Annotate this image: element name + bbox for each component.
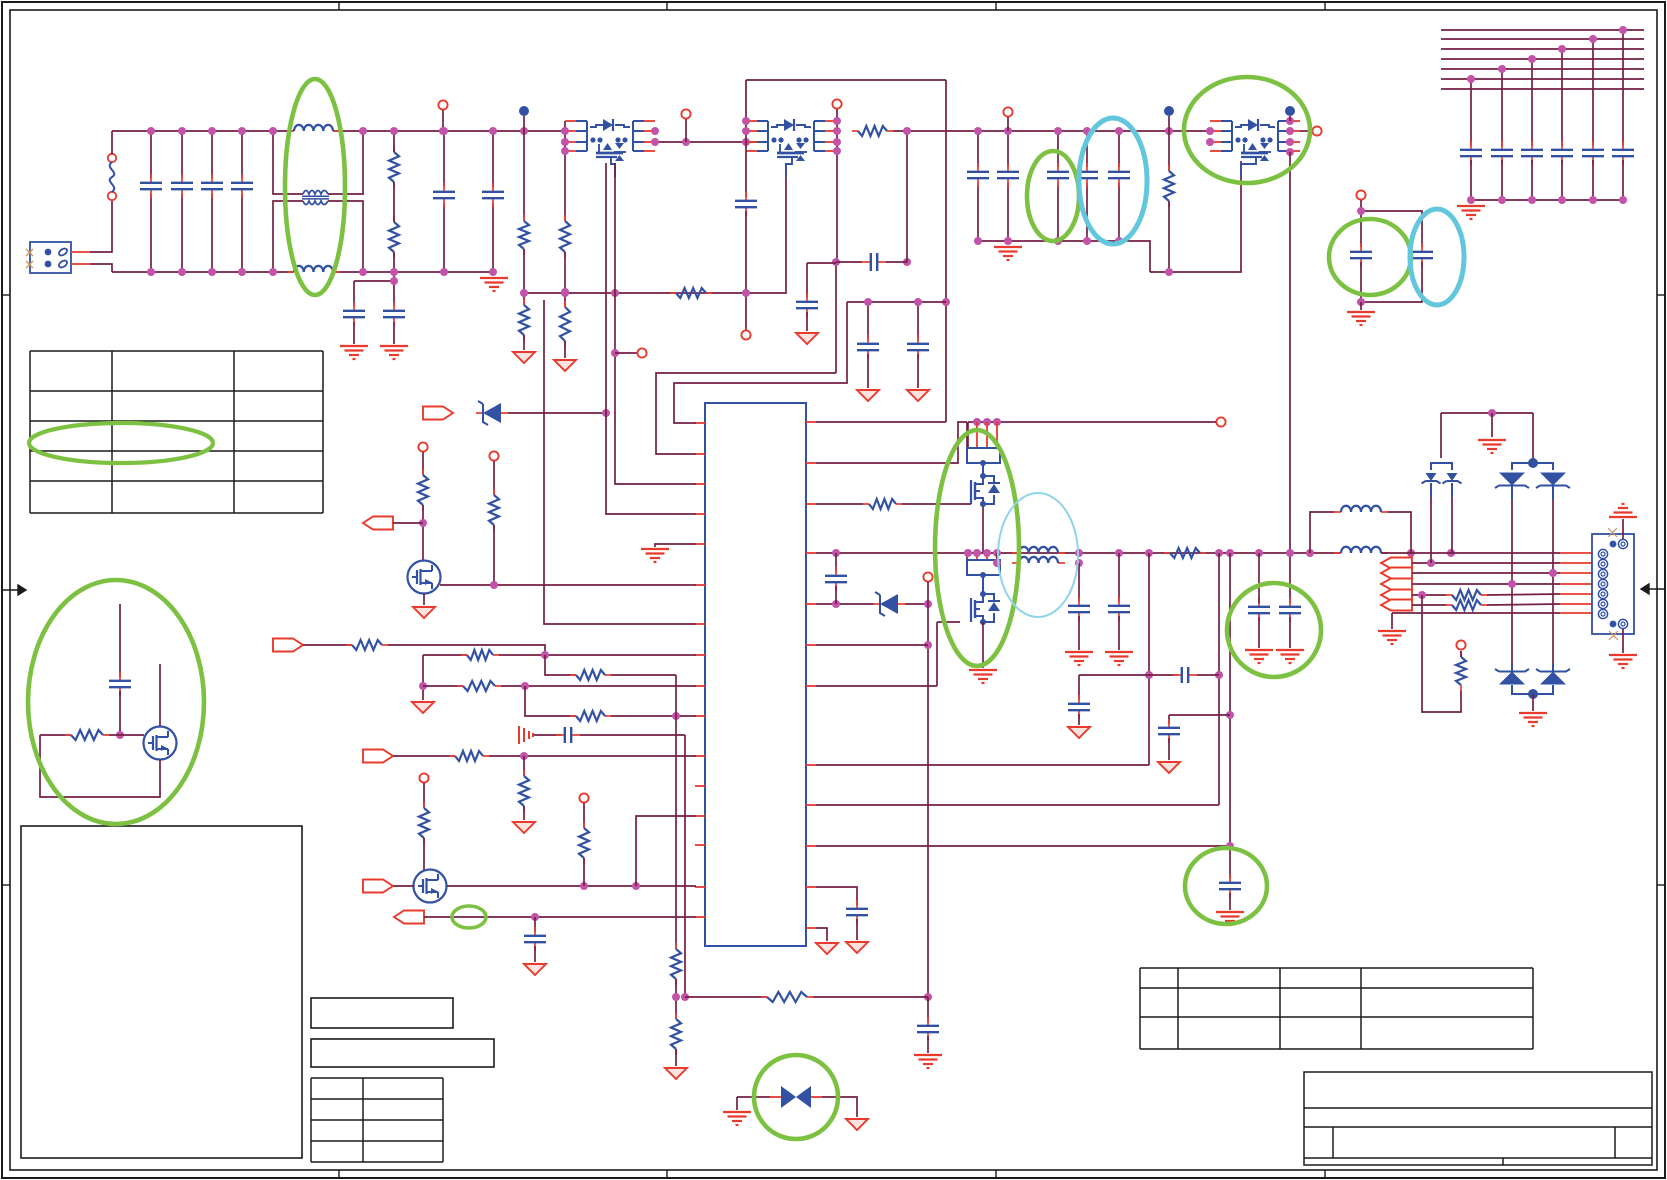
wire col494 stub: [493, 461, 495, 495]
wire cap807 h: [807, 262, 836, 264]
wire col524b dn: [523, 806, 525, 820]
capacitor C5 col444: [443, 131, 445, 272]
wire col423 low2: [422, 655, 424, 700]
capacitor C snub h: [862, 253, 886, 271]
wire pin row686r: [816, 685, 937, 687]
ground earth out rail: [1457, 206, 1485, 219]
wire loop 1361-1422: [1361, 211, 1422, 247]
resistor R col676 lower: [671, 1013, 681, 1055]
junction dot row917: [531, 913, 539, 921]
wire pinB row463: [816, 422, 967, 463]
resistor R col565 upper: [560, 215, 570, 258]
wire col928 cap: [927, 997, 929, 1022]
ground tri col807: [796, 333, 818, 344]
resistor R row655: [461, 650, 499, 660]
resistor R col524 lower: [519, 299, 529, 341]
net label arrow out1: [1381, 558, 1412, 569]
wire small diode legs: [1431, 483, 1452, 563]
wire cluster3 out: [1300, 130, 1312, 132]
wire row523: [393, 522, 423, 524]
transistor Q1 Q2 pair primary: [565, 119, 655, 177]
wire col615 tp stub: [615, 352, 637, 354]
wire row816: [636, 816, 696, 886]
wire CY1 down: [353, 322, 355, 344]
resistor R bleed lower: [389, 216, 399, 258]
junction dots cluster3: [1206, 117, 1294, 156]
title block: [1304, 1072, 1652, 1165]
capacitor C out col1623: [1612, 141, 1634, 165]
junction dots out gnd rail: [1467, 196, 1627, 204]
ground tri col1169: [1158, 762, 1180, 773]
wire col1230 gnd: [1229, 893, 1231, 910]
highlight ellipse sync fets: [935, 430, 1019, 666]
capacitor CX2: [181, 131, 183, 272]
capacitor C col1087 plates: [1076, 163, 1098, 187]
capacitor C col857: [846, 900, 868, 924]
resistor R col423: [418, 469, 428, 511]
highlight ellipse cyan caps: [1079, 118, 1147, 244]
wire out row573: [1412, 572, 1560, 574]
wire col746 low: [745, 211, 747, 293]
wire cap918 up: [917, 302, 919, 340]
wire row686: [423, 685, 463, 687]
wire out row613: [1392, 612, 1560, 614]
terminal dot tvs bottom: [1528, 689, 1538, 699]
wire pin row805: [816, 804, 1219, 806]
wire ycap branch v: [393, 272, 395, 306]
junction dot col423: [419, 519, 427, 527]
capacitor C col1087: [1086, 131, 1088, 241]
wire C out col1502 dn: [1501, 160, 1503, 200]
net label arrow out4: [1381, 590, 1412, 601]
ground earth tvs bottom: [1519, 713, 1547, 726]
wire col676 gnd: [675, 1049, 677, 1066]
wire col946: [945, 80, 947, 422]
box label 2: [311, 1039, 494, 1067]
terminal blue col1290: [1285, 106, 1295, 116]
wire tvs legs: [1512, 486, 1553, 664]
net label arrow out2: [1381, 568, 1412, 579]
pin stub connector row6: [1560, 603, 1592, 605]
capacitor C5 plates: [433, 183, 455, 207]
wire col584 stub: [583, 803, 585, 828]
transistor Q10 package upper: [967, 422, 1000, 507]
highlight ellipse cap 1058: [1027, 151, 1079, 241]
wire row686 b: [501, 685, 696, 687]
wire TP1008 stub: [1007, 117, 1009, 131]
terminal TP col1008: [1003, 107, 1012, 116]
wire TP686 stub: [685, 119, 687, 142]
junction dots rail553: [832, 549, 1455, 557]
resistor R col1169: [1164, 165, 1174, 207]
resistor R sense: [1456, 651, 1466, 691]
resistor R row686: [457, 681, 501, 691]
resistor R row756: [449, 751, 489, 761]
terminal TP cluster3 out: [1312, 126, 1321, 135]
wire ycap branch h: [354, 280, 394, 282]
box label 1: [311, 998, 453, 1028]
fuse F1: [108, 154, 116, 200]
junction dots out rows: [1418, 559, 1435, 599]
junction dots rail422: [973, 418, 1001, 426]
connector J1 AC inlet: [26, 242, 71, 273]
wire col928 gnd: [927, 1036, 929, 1053]
ground earth col1361: [1347, 312, 1375, 325]
junction dots col746: [520, 117, 750, 297]
wire A pin454: [656, 373, 836, 454]
capacitor CX4 plates: [231, 174, 253, 198]
net label arrow row756: [363, 750, 393, 763]
ground antenna row735: [519, 726, 533, 744]
junction dot 1169-272: [1165, 268, 1173, 276]
wire col676 low: [675, 979, 677, 1019]
junction dots loop: [1357, 207, 1365, 306]
junction dots col928: [924, 641, 932, 1001]
wire J2 bottom gnd: [1622, 629, 1624, 653]
wire col606: [606, 163, 696, 514]
wire col1361 dn: [1360, 262, 1362, 302]
wire cap807 dn: [806, 312, 808, 331]
resistor R out605: [1446, 600, 1487, 610]
transistor Q5 Q6 pair clamp: [1210, 119, 1300, 177]
ground tri col1079b: [1068, 727, 1090, 738]
wire col544: [544, 300, 696, 624]
terminal TP col423: [418, 442, 427, 451]
diode DZ row413: [476, 401, 508, 425]
ground tri col565: [554, 360, 576, 371]
wire col1169 low: [1168, 201, 1170, 272]
wire col565 mid: [564, 252, 566, 307]
ground earth col1230: [1216, 912, 1244, 925]
wire Q11 src row622: [937, 621, 960, 623]
terminal blue col1169: [1164, 106, 1174, 116]
wire row504 a: [816, 503, 863, 505]
wire E3 loop: [40, 735, 160, 797]
junction dots row886: [580, 882, 640, 890]
resistor R col524 upper: [519, 215, 529, 255]
wire col1079: [1078, 563, 1080, 602]
wire top bus segment B: [333, 130, 565, 132]
capacitor C col1290 circled: [1279, 598, 1301, 622]
wire row293: [524, 163, 786, 293]
resistor R col424b: [419, 802, 429, 844]
wire col423 stub: [422, 452, 424, 475]
junction dots y302: [864, 298, 922, 306]
junction dot row716: [672, 712, 680, 720]
wire pin row846: [816, 845, 1230, 847]
capacitor CY2: [383, 302, 405, 326]
capacitor C col836: [825, 567, 847, 591]
transistor Q11 package lower: [967, 553, 1000, 625]
wire row604 b: [905, 603, 928, 605]
wire col1169 top: [1168, 116, 1170, 171]
junction dot row585: [490, 581, 498, 589]
wire top loop: [746, 79, 946, 81]
terminal TP col615: [637, 348, 646, 357]
junction dots tvs legs: [1508, 569, 1557, 588]
op-amp U1 controller IC: [705, 403, 806, 946]
pin stub connector row4: [1560, 583, 1592, 585]
wire out row595 b: [1487, 594, 1560, 595]
wire row997 a: [685, 996, 767, 998]
wire Q7 source gnd: [423, 593, 425, 605]
wire col1219: [1218, 553, 1220, 805]
transistor Q7 circled: [408, 561, 441, 594]
capacitor C col1361: [1350, 243, 1372, 267]
ground earth J2 top: [1609, 504, 1637, 517]
wire output bundle 7 lines: [1441, 30, 1644, 89]
wire col535: [534, 917, 536, 932]
wire row735 a: [534, 734, 561, 736]
capacitor CX3 plates: [201, 174, 223, 198]
junction dot col1219: [1215, 671, 1223, 679]
wire row735 b: [580, 734, 685, 736]
terminal TP rail422: [1216, 417, 1225, 426]
wire col1079 dn: [1078, 616, 1080, 650]
wire bleed top: [393, 131, 395, 152]
wire out row605: [1412, 604, 1446, 606]
wire row272 right: [1150, 161, 1241, 272]
inductor L coupled lower: [1012, 557, 1065, 563]
ground tri col857: [846, 942, 868, 953]
ground tri col524b: [513, 822, 535, 833]
wire E3 row b: [109, 734, 144, 736]
wire tvs gnd stub: [1491, 413, 1493, 437]
inductor L1: [1334, 506, 1388, 512]
ground tri col524: [513, 352, 535, 363]
highlight ellipse tvs bottom: [754, 1055, 838, 1139]
junction dots cluster1 left: [561, 127, 569, 297]
wire col524b: [523, 756, 525, 776]
wire row716 b: [611, 715, 696, 717]
junction dots row604: [832, 600, 932, 608]
diode D tvs 1: [1495, 473, 1529, 489]
wire sense loop: [1422, 595, 1461, 712]
wire row886 wire b: [447, 885, 696, 887]
net label arrow row523: [363, 517, 393, 530]
wire TP stub: [442, 110, 444, 131]
wire E3 row735: [40, 734, 71, 736]
wire col1079b dn: [1078, 714, 1080, 725]
capacitor C col535: [524, 927, 546, 951]
ground tri col868: [857, 390, 879, 401]
wire col746: [745, 80, 747, 197]
wire snub right: [886, 261, 907, 263]
ground earth CY1: [340, 346, 368, 359]
junction dots col1230: [1226, 711, 1234, 850]
transistor Q9 circled: [144, 727, 177, 760]
wire col524 top: [523, 116, 525, 221]
ground earth J2 bottom: [1609, 655, 1637, 668]
wire snub left: [836, 261, 862, 263]
wire row544 gnd: [655, 544, 696, 547]
wire y302: [847, 301, 946, 303]
ground earth Q11: [969, 670, 997, 683]
wire out gnd613: [1391, 613, 1393, 629]
net label arrow row917: [394, 911, 424, 924]
wire col907: [906, 131, 908, 262]
wire col423 low: [422, 505, 424, 561]
wire rail y241: [978, 240, 1119, 242]
capacitor C6 col493: [492, 131, 494, 272]
wire output bundle drops: [1471, 30, 1623, 146]
wire pinA row422: [816, 421, 946, 423]
inductor L coupled upper: [1012, 547, 1065, 553]
wire tvs2 right: [811, 1097, 857, 1117]
wire col1361 gnd stub: [1360, 302, 1362, 310]
capacitor C col1169: [1158, 719, 1180, 743]
junction dot row756: [520, 752, 528, 760]
wire pinF row645: [816, 644, 928, 646]
capacitor C col928: [917, 1017, 939, 1041]
highlight ellipse cap 1230: [1185, 848, 1267, 924]
wire Q10 src to rail: [982, 504, 984, 553]
ground earth CY2: [380, 346, 408, 359]
wire C out col1623 dn: [1622, 160, 1624, 200]
wire tvs bottom gnd: [1532, 694, 1534, 711]
wire col1422 dn: [1361, 262, 1422, 302]
junction dot tvs top: [1488, 409, 1496, 417]
junction dots winding lower: [993, 559, 1083, 567]
wire rail553 main: [816, 552, 1341, 554]
capacitor C col978 plates: [967, 163, 989, 187]
wire col857 dn: [856, 919, 858, 940]
connector J2 output: [1592, 528, 1634, 640]
ground earth col1259: [1245, 650, 1273, 663]
wire col1290 stub: [1289, 116, 1291, 121]
diode D tvs 2: [1536, 473, 1570, 489]
net label arrow out3: [1381, 579, 1412, 590]
junction dot row686: [521, 682, 529, 690]
wire bleed bottom: [393, 252, 395, 272]
junction dot E3: [116, 731, 124, 739]
wire small diode bracket2: [1431, 463, 1452, 470]
capacitor C out col1532: [1521, 141, 1543, 165]
wire sense stub: [1460, 651, 1462, 657]
ground tri col918: [907, 390, 929, 401]
capacitor C col1008 plates: [997, 163, 1019, 187]
capacitor C col1119 plates: [1108, 163, 1130, 187]
wire C out col1471 dn: [1470, 160, 1472, 200]
ground tri col423: [412, 702, 434, 713]
terminal TP cluster1 out: [681, 109, 690, 118]
wire tvs2 gnd stub: [736, 1097, 738, 1110]
wire row645 b: [388, 645, 545, 655]
wire col1119 dn: [1118, 616, 1120, 650]
wire rail422 tp stub: [1210, 421, 1216, 423]
ground earth col1119: [1105, 652, 1133, 665]
resistor R col565 lower: [560, 301, 570, 347]
wire col565: [564, 121, 566, 221]
wire row675: [545, 655, 576, 675]
wire col1259 dn: [1258, 617, 1260, 648]
junction dot col423b: [419, 682, 427, 690]
diode D tvs 3: [1495, 669, 1529, 685]
net label arrow out5: [1381, 600, 1412, 611]
wire out row605 b: [1487, 604, 1560, 605]
pin stub connector row5: [1560, 593, 1592, 595]
terminal TP col584: [579, 793, 588, 802]
wire row585: [440, 584, 696, 586]
wire zener row604: [816, 603, 874, 605]
ground tri col827: [816, 943, 838, 954]
wire CY2 down: [393, 322, 395, 344]
frame right center arrow: [1641, 584, 1665, 594]
wire row715: [1169, 714, 1230, 716]
terminal TP col424b: [419, 773, 428, 782]
wire row504 b: [902, 503, 971, 505]
wire row886 wire: [393, 885, 414, 887]
wire col535 dn: [534, 946, 536, 962]
wire col928 long: [927, 604, 929, 997]
wire out row584: [1412, 583, 1560, 585]
capacitor CX1: [150, 131, 152, 272]
wire row413: [508, 412, 606, 414]
wire row655 b: [499, 654, 696, 656]
wire E3 cap top: [119, 604, 121, 677]
capacitor C col868: [857, 335, 879, 359]
terminal TP col1361: [1356, 190, 1365, 199]
capacitor C col746: [735, 192, 757, 216]
wire col1290 long: [1289, 152, 1291, 603]
capacitor C out col1471: [1460, 141, 1482, 165]
capacitor C col1119: [1108, 597, 1130, 621]
table bottom-left small: [311, 1078, 443, 1162]
resistor R row997: [761, 992, 813, 1002]
wire col1290 dn: [1289, 617, 1291, 648]
wire col615: [615, 163, 696, 484]
capacitor C col1422: [1411, 243, 1433, 267]
wire col1149: [1148, 553, 1150, 765]
capacitor C col1058: [1057, 131, 1059, 241]
junction dot row413: [602, 409, 610, 417]
net label arrow row886: [363, 880, 393, 893]
wire row917: [424, 916, 696, 918]
junction dots input buses: [147, 127, 528, 285]
wire J1 pin1 to fuse: [71, 201, 112, 252]
wire bottom bus segment A: [112, 271, 294, 273]
transistor Q3 Q4 pair primary: [746, 119, 836, 177]
ground earth rail241: [994, 247, 1022, 260]
wire col565 low: [564, 341, 566, 358]
capacitor CX2 plates: [171, 174, 193, 198]
wire bus y131 right: [893, 130, 1210, 132]
diode D small 1: [1422, 473, 1441, 484]
frame left center arrow: [2, 585, 26, 595]
wire col928 stub: [927, 582, 929, 604]
wire col584 low: [583, 858, 585, 886]
wire row675 b: [611, 674, 676, 676]
diode D small 2: [1443, 473, 1462, 484]
resistor R row645: [346, 640, 388, 650]
wire col1119: [1118, 553, 1120, 602]
highlight ellipse cyan cap right: [1410, 209, 1464, 305]
wire col1259 up: [1258, 553, 1260, 603]
wire pin row765: [816, 764, 1149, 766]
transistor Q8 circled: [414, 870, 447, 903]
wire bottom bus segment B: [333, 271, 495, 273]
capacitor C col978: [977, 131, 979, 241]
wire small diode bracket: [1440, 413, 1442, 458]
capacitor C col1230 circled: [1219, 874, 1241, 898]
terminal dot Q10 src: [980, 501, 986, 507]
capacitor C col1008: [1007, 131, 1009, 241]
capacitor C E3: [109, 672, 131, 696]
wire col424b stub: [423, 783, 425, 808]
resistor R col584: [579, 822, 589, 864]
pin stub connector row7: [1560, 612, 1592, 614]
highlight ellipse table row: [29, 423, 213, 463]
